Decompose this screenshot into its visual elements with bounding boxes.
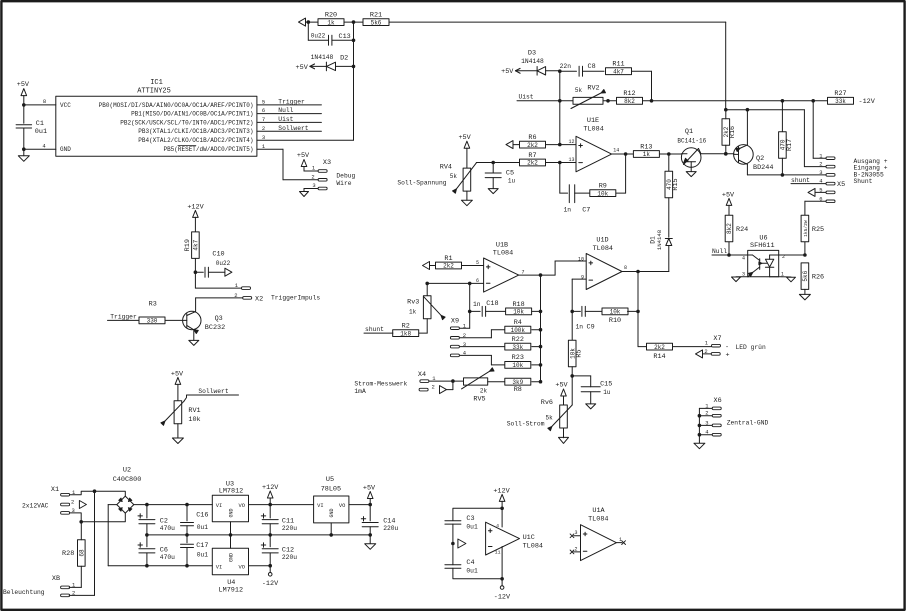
svg-text:+5V: +5V (296, 64, 309, 72)
svg-text:10k: 10k (597, 190, 608, 197)
svg-text:GND: GND (329, 508, 335, 517)
svg-text:2k2: 2k2 (527, 160, 538, 167)
svg-text:R13: R13 (640, 143, 652, 151)
svg-text:+5V: +5V (363, 485, 376, 493)
svg-text:VO: VO (239, 565, 245, 571)
svg-text:Sollwert: Sollwert (198, 388, 228, 395)
svg-text:Strom-Messwerk: Strom-Messwerk (354, 380, 407, 387)
svg-text:R28: R28 (62, 550, 74, 558)
svg-text:0u1: 0u1 (466, 567, 478, 574)
svg-text:+5V: +5V (722, 191, 735, 199)
svg-text:C10: C10 (212, 251, 224, 259)
svg-text:6: 6 (262, 107, 265, 114)
svg-text:1n: 1n (575, 323, 583, 330)
svg-text:R8: R8 (514, 386, 522, 394)
svg-text:Uist: Uist (278, 116, 293, 123)
svg-text:R25: R25 (812, 226, 824, 234)
svg-text:1k: 1k (409, 309, 417, 316)
svg-text:GND: GND (60, 146, 71, 153)
svg-text:1k: 1k (643, 151, 651, 158)
svg-text:R23: R23 (512, 354, 524, 362)
svg-text:1mA: 1mA (354, 388, 366, 395)
svg-text:R18: R18 (512, 301, 524, 309)
svg-text:5k: 5k (545, 415, 553, 422)
svg-text:ATTINY25: ATTINY25 (137, 88, 171, 96)
svg-text:1: 1 (781, 271, 784, 277)
svg-text:R27: R27 (834, 90, 846, 98)
svg-text:C40C800: C40C800 (113, 476, 142, 484)
svg-text:PB4(XTAL2/CLKO/OC1B/ADC2/PCINT: PB4(XTAL2/CLKO/OC1B/ADC2/PCINT4) (138, 137, 253, 144)
svg-text:2: 2 (432, 384, 435, 391)
svg-text:330: 330 (147, 318, 158, 325)
svg-text:0u1: 0u1 (197, 524, 209, 531)
svg-text:2: 2 (311, 173, 314, 180)
svg-text:C1: C1 (36, 120, 44, 128)
svg-text:1n: 1n (563, 207, 571, 214)
svg-text:Zentral-GND: Zentral-GND (727, 420, 769, 427)
svg-text:Sollwert: Sollwert (278, 125, 308, 132)
svg-text:C8: C8 (588, 63, 596, 71)
svg-text:78L05: 78L05 (321, 486, 341, 494)
svg-text:XB: XB (52, 575, 60, 583)
svg-text:GND: GND (228, 553, 234, 562)
svg-text:Uist: Uist (518, 94, 533, 101)
svg-text:1: 1 (619, 537, 622, 543)
svg-text:R24: R24 (736, 226, 748, 234)
svg-text:4k7: 4k7 (613, 68, 624, 75)
svg-text:10k: 10k (513, 309, 524, 316)
svg-text:C9: C9 (587, 323, 595, 331)
svg-text:220u: 220u (282, 554, 297, 561)
svg-text:R4: R4 (514, 319, 522, 327)
svg-text:U1A: U1A (592, 507, 605, 515)
svg-text:R3: R3 (149, 300, 157, 308)
svg-text:470u: 470u (160, 525, 175, 532)
svg-text:7: 7 (262, 116, 265, 123)
svg-text:X7: X7 (713, 335, 721, 343)
svg-text:4k7: 4k7 (193, 239, 200, 250)
svg-text:Shunt: Shunt (854, 178, 873, 185)
svg-text:22n: 22n (560, 63, 572, 70)
svg-text:LED grün: LED grün (736, 344, 766, 351)
svg-text:Soll-Spannung: Soll-Spannung (397, 179, 446, 186)
svg-text:4: 4 (742, 255, 745, 261)
svg-text:R10: R10 (609, 317, 621, 325)
svg-text:D3: D3 (528, 49, 536, 57)
svg-text:5k6: 5k6 (371, 19, 382, 26)
svg-text:C13: C13 (339, 33, 351, 41)
svg-text:1n: 1n (473, 301, 481, 308)
svg-text:TL084: TL084 (583, 126, 603, 134)
svg-text:TL084: TL084 (493, 250, 513, 258)
svg-text:10k: 10k (188, 416, 200, 424)
svg-text:Rv6: Rv6 (541, 399, 553, 407)
svg-text:2k: 2k (480, 387, 488, 394)
svg-text:1k8: 1k8 (400, 330, 411, 337)
svg-text:R22: R22 (512, 336, 524, 344)
svg-text:14: 14 (613, 148, 619, 154)
svg-text:VI: VI (317, 503, 323, 509)
svg-text:PB1(MISO/DO/AIN1/OC0B/OC1A/PCI: PB1(MISO/DO/AIN1/OC0B/OC1A/PCINT1) (131, 111, 253, 118)
svg-text:4: 4 (496, 523, 499, 529)
svg-text:+5V: +5V (555, 382, 568, 390)
svg-text:R14: R14 (653, 353, 665, 361)
svg-text:3: 3 (574, 530, 577, 536)
svg-text:+5V: +5V (458, 134, 471, 142)
svg-text:X1: X1 (51, 486, 59, 494)
svg-text:U1E: U1E (587, 117, 599, 125)
svg-text:SFH611: SFH611 (750, 242, 774, 250)
svg-text:PB5(RESET/dW/ADC0/PCINT5): PB5(RESET/dW/ADC0/PCINT5) (163, 146, 253, 153)
svg-text:R16: R16 (729, 126, 737, 138)
svg-text:C4: C4 (466, 559, 474, 567)
svg-text:2k2: 2k2 (527, 142, 538, 149)
svg-text:VO: VO (239, 503, 245, 509)
svg-text:2: 2 (71, 499, 74, 506)
svg-text:10k: 10k (610, 309, 621, 316)
svg-text:R6: R6 (528, 134, 536, 142)
svg-text:2k2: 2k2 (443, 263, 454, 270)
svg-text:0u1: 0u1 (466, 523, 478, 530)
svg-text:X2: X2 (255, 296, 263, 304)
svg-text:C16: C16 (196, 512, 208, 520)
svg-text:10k: 10k (512, 362, 523, 369)
svg-text:1: 1 (705, 340, 709, 347)
svg-text:LM7812: LM7812 (219, 488, 243, 496)
svg-text:Q3: Q3 (215, 315, 223, 323)
svg-text:R26: R26 (812, 273, 824, 281)
svg-text:-12V: -12V (494, 594, 511, 602)
svg-text:Wire: Wire (336, 180, 351, 187)
svg-text:LM7912: LM7912 (219, 587, 243, 595)
svg-text:Soll-Strom: Soll-Strom (507, 421, 545, 428)
svg-text:3: 3 (742, 272, 745, 278)
svg-text:3: 3 (819, 169, 822, 176)
svg-text:8k2: 8k2 (624, 98, 635, 105)
svg-text:RV1: RV1 (188, 407, 200, 415)
svg-text:RV4: RV4 (440, 163, 452, 171)
svg-text:R5: R5 (576, 349, 584, 357)
svg-text:Beleuchtung: Beleuchtung (3, 589, 45, 596)
svg-text:Rv3: Rv3 (407, 299, 419, 307)
svg-text:X3: X3 (323, 159, 331, 167)
svg-text:C7: C7 (582, 207, 590, 215)
svg-text:R17: R17 (786, 139, 794, 151)
svg-text:U1C: U1C (523, 534, 535, 542)
svg-text:+5V: +5V (17, 81, 30, 89)
svg-text:470u: 470u (160, 554, 175, 561)
svg-text:BC141-16: BC141-16 (677, 138, 706, 145)
svg-text:C3: C3 (466, 515, 474, 523)
svg-text:X6: X6 (714, 397, 722, 405)
svg-text:C15: C15 (600, 381, 612, 389)
svg-text:3k9: 3k9 (512, 379, 523, 386)
svg-text:PB0(MOSI/DI/SDA/AIN0/OC0A/OC1A: PB0(MOSI/DI/SDA/AIN0/OC0A/OC1A/AREF/PCIN… (99, 102, 254, 109)
svg-text:2k2: 2k2 (654, 344, 665, 351)
svg-text:R12: R12 (623, 90, 635, 98)
svg-text:2: 2 (574, 546, 577, 552)
svg-text:+5V: +5V (297, 152, 310, 160)
svg-text:0u22: 0u22 (311, 33, 326, 40)
svg-text:BC232: BC232 (205, 324, 225, 332)
svg-text:33k: 33k (512, 344, 523, 351)
svg-text:2: 2 (819, 161, 822, 168)
svg-text:R20: R20 (325, 12, 337, 20)
svg-text:TriggerImpuls: TriggerImpuls (271, 295, 320, 302)
svg-text:-12V: -12V (262, 580, 279, 588)
svg-text:0u1: 0u1 (197, 552, 209, 559)
svg-text:Null: Null (278, 107, 293, 114)
svg-text:1N4148: 1N4148 (521, 58, 544, 65)
svg-text:R2: R2 (402, 323, 410, 331)
svg-text:RV5: RV5 (473, 396, 485, 404)
svg-text:TL084: TL084 (523, 543, 543, 551)
svg-text:R1: R1 (444, 255, 452, 263)
svg-text:Trigger: Trigger (110, 314, 137, 321)
svg-text:1k5/2W: 1k5/2W (803, 220, 809, 237)
svg-text:+: + (725, 352, 729, 360)
svg-text:220u: 220u (383, 525, 398, 532)
svg-text:4: 4 (42, 142, 46, 149)
svg-text:GND: GND (228, 508, 234, 517)
svg-text:Q2: Q2 (756, 155, 764, 163)
svg-text:U1D: U1D (596, 236, 608, 244)
svg-text:5: 5 (262, 99, 265, 106)
svg-text:Trigger: Trigger (278, 99, 305, 106)
svg-text:1N4148: 1N4148 (656, 230, 663, 250)
svg-text:RV2: RV2 (587, 84, 599, 92)
svg-text:U5: U5 (326, 476, 334, 484)
svg-text:5k: 5k (450, 173, 458, 180)
svg-text:5k6: 5k6 (802, 270, 809, 281)
svg-text:R7: R7 (528, 152, 536, 160)
svg-text:1N4148: 1N4148 (311, 54, 334, 61)
svg-text:-: - (725, 343, 729, 351)
svg-text:7: 7 (522, 269, 525, 275)
svg-text:R11: R11 (612, 61, 624, 69)
svg-text:IC1: IC1 (150, 79, 163, 87)
svg-text:0u22: 0u22 (216, 260, 231, 267)
svg-text:+5V: +5V (501, 68, 514, 76)
svg-text:8k2: 8k2 (726, 223, 733, 234)
svg-text:+12V: +12V (187, 204, 204, 212)
svg-text:11: 11 (495, 549, 501, 555)
svg-text:R9: R9 (599, 183, 607, 191)
svg-text:TL084: TL084 (593, 245, 613, 253)
svg-text:68: 68 (78, 549, 85, 557)
svg-text:TL084: TL084 (588, 516, 608, 524)
svg-text:VCC: VCC (60, 102, 71, 109)
svg-text:PB3(XTAL1/CLKI/OC1B/ADC3/PCINT: PB3(XTAL1/CLKI/OC1B/ADC3/PCINT3) (138, 128, 253, 135)
svg-text:C17: C17 (196, 542, 208, 550)
svg-text:shunt: shunt (365, 326, 384, 333)
svg-text:1u: 1u (508, 177, 516, 184)
svg-text:BD244: BD244 (753, 164, 773, 172)
svg-text:VO: VO (339, 503, 345, 509)
svg-text:VI: VI (216, 565, 222, 571)
svg-text:X4: X4 (418, 371, 426, 379)
svg-text:R19: R19 (184, 239, 192, 251)
svg-text:33k: 33k (835, 98, 846, 105)
svg-text:U1B: U1B (496, 241, 508, 249)
svg-text:PB2(SCK/USCK/SCL/T0/INT0/ADC1/: PB2(SCK/USCK/SCL/T0/INT0/ADC1/PCINT2) (120, 119, 253, 126)
svg-text:R21: R21 (370, 12, 382, 20)
svg-text:100k: 100k (511, 327, 526, 334)
svg-text:2x12VAC: 2x12VAC (22, 503, 49, 510)
svg-text:R15: R15 (672, 178, 680, 190)
svg-text:Q1: Q1 (685, 128, 693, 136)
svg-text:D2: D2 (340, 54, 348, 62)
svg-text:220u: 220u (282, 525, 297, 532)
svg-text:-12V: -12V (859, 98, 876, 106)
svg-text:U2: U2 (123, 467, 131, 475)
svg-text:0u1: 0u1 (35, 128, 47, 136)
svg-text:C5: C5 (506, 169, 514, 177)
svg-text:VI: VI (216, 503, 222, 509)
svg-text:1u: 1u (603, 389, 611, 396)
svg-text:8: 8 (43, 98, 46, 105)
svg-text:X9: X9 (451, 318, 459, 326)
svg-text:shunt: shunt (791, 177, 810, 184)
svg-text:2: 2 (262, 125, 265, 132)
svg-text:1k: 1k (327, 19, 335, 26)
svg-text:Null: Null (712, 248, 727, 255)
svg-text:Debug: Debug (336, 173, 355, 180)
svg-text:C18: C18 (486, 300, 498, 308)
svg-text:8: 8 (624, 265, 627, 271)
svg-text:X5: X5 (837, 181, 845, 189)
svg-text:5k: 5k (575, 87, 583, 94)
